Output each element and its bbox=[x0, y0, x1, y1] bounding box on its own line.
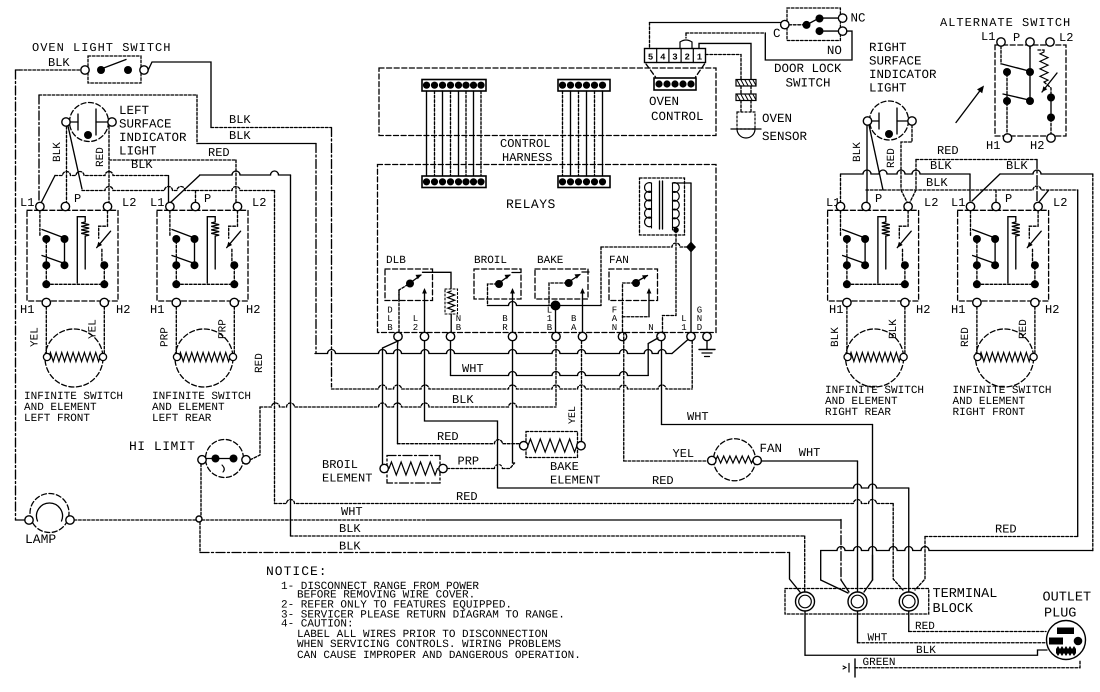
terminal block funnel diagonals bbox=[820, 551, 822, 581]
terminal block terminal 1 bbox=[796, 592, 815, 611]
svg-text:LEFT REAR: LEFT REAR bbox=[152, 413, 212, 425]
svg-text:YEL: YEL bbox=[568, 406, 579, 424]
left front element bbox=[45, 329, 103, 387]
svg-text:RIGHT: RIGHT bbox=[869, 41, 907, 55]
left front element leads bbox=[45, 307, 47, 353]
relay DLB coil R1 bbox=[445, 289, 458, 314]
svg-text:SENSOR: SENSOR bbox=[762, 130, 808, 144]
wire bus D (hi limit) bbox=[260, 403, 556, 407]
alternate switch box bbox=[995, 45, 1066, 136]
svg-text:H2: H2 bbox=[116, 303, 130, 317]
wire P right-front riser bbox=[995, 190, 997, 202]
broil element R2 box bbox=[387, 456, 440, 484]
right front L1 terminal bbox=[966, 202, 974, 210]
svg-text:H2: H2 bbox=[916, 303, 930, 317]
oven control trapezoid bbox=[646, 64, 656, 77]
wire L2 right-front riser bbox=[1039, 191, 1048, 202]
node lamp junction bbox=[196, 516, 202, 522]
harness connector J2 lower bbox=[558, 176, 610, 188]
svg-text:SURFACE: SURFACE bbox=[869, 55, 922, 69]
svg-text:BLK: BLK bbox=[852, 142, 864, 162]
left front L1 terminal bbox=[36, 202, 44, 210]
fan motor B1 bbox=[714, 439, 756, 481]
left front P terminal bbox=[61, 202, 69, 210]
right rear L2 terminal bbox=[904, 202, 912, 210]
right front H1 terminal bbox=[973, 298, 981, 306]
svg-text:RED: RED bbox=[437, 430, 459, 444]
svg-text:CONTROL: CONTROL bbox=[500, 137, 550, 151]
svg-text:BROIL: BROIL bbox=[474, 255, 507, 267]
svg-text:RIGHT FRONT: RIGHT FRONT bbox=[953, 407, 1026, 419]
wire RED riser to L2 left-rear bbox=[235, 160, 237, 202]
svg-text:LEFT: LEFT bbox=[119, 104, 150, 118]
svg-text:HI LIMIT: HI LIMIT bbox=[129, 439, 195, 454]
wire riser to bus A bbox=[315, 144, 317, 354]
alternate switch thermostat bbox=[1042, 73, 1057, 92]
svg-text:P: P bbox=[875, 192, 882, 206]
hi limit switch S2 bbox=[206, 440, 244, 478]
svg-text:RED: RED bbox=[456, 490, 478, 504]
harness connector J1 upper bbox=[422, 80, 486, 92]
svg-text:RED: RED bbox=[960, 327, 972, 347]
right front element bbox=[976, 329, 1034, 387]
svg-text:ELEMENT: ELEMENT bbox=[322, 472, 372, 486]
oven sensor bulb RT1 bbox=[737, 112, 755, 129]
right front L2 terminal bbox=[1034, 202, 1042, 210]
bake element R3 box bbox=[526, 432, 578, 458]
svg-text:RED: RED bbox=[95, 147, 107, 167]
wire lamp to junction bbox=[74, 519, 196, 521]
svg-text:SURFACE: SURFACE bbox=[119, 118, 172, 132]
wire L1B broil common bus bbox=[488, 302, 602, 306]
left rear element bbox=[175, 329, 233, 387]
svg-text:WHT: WHT bbox=[462, 362, 484, 376]
left rear L2 terminal bbox=[233, 202, 241, 210]
right rear element leads bbox=[846, 307, 848, 353]
svg-text:PRP: PRP bbox=[458, 455, 480, 469]
right front P terminal bbox=[992, 202, 1000, 210]
svg-text:L1: L1 bbox=[981, 30, 995, 44]
ground symbol GND bbox=[706, 341, 708, 349]
relay DLB armature arrow bbox=[424, 290, 426, 333]
relay FAN K4 bbox=[609, 269, 658, 301]
svg-text:B: B bbox=[387, 323, 393, 333]
svg-text:L2: L2 bbox=[1059, 31, 1073, 45]
left rear H2 terminal bbox=[230, 298, 238, 306]
wire L1 left-front riser bbox=[38, 95, 40, 202]
svg-text:L1: L1 bbox=[951, 196, 965, 210]
svg-text:LIGHT: LIGHT bbox=[869, 82, 907, 96]
svg-text:L2: L2 bbox=[252, 196, 266, 210]
svg-text:P: P bbox=[1005, 192, 1012, 206]
door lock switch S3 box bbox=[787, 8, 840, 41]
terminal block terminal 2 bbox=[848, 592, 867, 611]
node L1 junction diamond bbox=[686, 242, 696, 253]
wire riser to BLK bus 536 bbox=[290, 175, 292, 536]
svg-text:BROIL: BROIL bbox=[322, 458, 358, 472]
outlet plug P2 bbox=[1047, 621, 1086, 660]
svg-text:BLK: BLK bbox=[131, 158, 153, 172]
wire L1 riser inside relays bbox=[600, 247, 602, 306]
wire junction drop to BLK bus bbox=[199, 522, 201, 553]
svg-text:CAN CAUSE IMPROPER AND DANGERO: CAN CAUSE IMPROPER AND DANGEROUS OPERATI… bbox=[297, 650, 581, 662]
svg-text:A: A bbox=[571, 323, 577, 333]
svg-text:PLUG: PLUG bbox=[1044, 607, 1076, 622]
left rear element leads bbox=[175, 307, 177, 353]
svg-text:BLK: BLK bbox=[48, 56, 70, 70]
right rear H2 terminal bbox=[901, 298, 909, 306]
svg-text:DLB: DLB bbox=[386, 255, 406, 267]
svg-text:NC: NC bbox=[851, 12, 866, 26]
left rear P terminal bbox=[191, 202, 199, 210]
oven sensor connector upper bbox=[736, 80, 756, 87]
terminal block terminal 3 bbox=[899, 592, 918, 611]
svg-text:YEL: YEL bbox=[673, 447, 695, 461]
wire oven light switch right bbox=[148, 62, 211, 128]
svg-text:NOTICE:: NOTICE: bbox=[266, 564, 328, 579]
wire oven light switch left to border bbox=[20, 69, 81, 71]
right rear thermostat contact bbox=[899, 211, 908, 239]
wire transformer secondary top to L1 bbox=[673, 182, 692, 184]
svg-text:H2: H2 bbox=[1030, 139, 1044, 153]
oven control connector block bbox=[654, 78, 696, 90]
wire DLB to broil element bbox=[383, 341, 399, 348]
left rear thermostat contact bbox=[229, 211, 238, 239]
bake element R3 bbox=[520, 442, 528, 450]
svg-text:BLK: BLK bbox=[229, 129, 251, 143]
svg-text:1: 1 bbox=[681, 323, 686, 333]
transformer core bbox=[659, 181, 661, 229]
wire riser to RED bus 503 bbox=[274, 191, 276, 504]
right rear heater resistor bbox=[878, 217, 886, 283]
svg-text:RED: RED bbox=[995, 523, 1017, 537]
lamp DS3 bbox=[30, 494, 69, 533]
right front element leads bbox=[976, 307, 978, 353]
harness connector J2 upper bbox=[558, 80, 610, 92]
svg-text:P: P bbox=[1013, 31, 1020, 45]
wire L1 bus left (BLK) bbox=[41, 176, 55, 204]
relay output terminals bbox=[394, 332, 402, 340]
infinite switch left front box bbox=[27, 210, 118, 301]
svg-text:5: 5 bbox=[648, 53, 653, 63]
left rear H1 terminal bbox=[172, 298, 180, 306]
control harness box bbox=[379, 68, 716, 136]
harness wires J1 bbox=[426, 91, 428, 176]
relay DLB K1 bbox=[385, 269, 433, 301]
wire right indicator diagonal lead bbox=[869, 125, 883, 190]
alternate switch resistor bbox=[1029, 46, 1031, 50]
oven control tab bbox=[680, 40, 692, 49]
alternate switch contacts bbox=[1000, 46, 1002, 64]
svg-text:H1: H1 bbox=[986, 139, 1000, 153]
wire FAN common drop bbox=[623, 283, 635, 333]
svg-text:WHT: WHT bbox=[687, 410, 709, 424]
infinite switch right rear box bbox=[828, 210, 919, 301]
wire pin1 to oven sensor bbox=[706, 55, 742, 80]
relay BROIL armature arrow bbox=[512, 290, 514, 333]
wire BAKE common bbox=[549, 283, 567, 306]
svg-text:WHT: WHT bbox=[341, 505, 363, 519]
svg-text:B: B bbox=[547, 323, 553, 333]
svg-text:P: P bbox=[74, 192, 81, 206]
left surface indicator light DS1 bbox=[70, 103, 109, 142]
right rear P terminal bbox=[862, 202, 870, 210]
wire transformer secondary bottom to N bbox=[673, 227, 679, 233]
left front H2 terminal bbox=[100, 298, 108, 306]
left front thermostat contact bbox=[99, 211, 108, 239]
svg-text:N: N bbox=[612, 323, 617, 333]
svg-text:L1: L1 bbox=[20, 196, 34, 210]
svg-text:BLK: BLK bbox=[339, 540, 361, 554]
svg-text:RELAYS: RELAYS bbox=[506, 197, 556, 212]
svg-text:L2: L2 bbox=[122, 196, 136, 210]
svg-text:ELEMENT: ELEMENT bbox=[550, 474, 600, 488]
svg-text:YEL: YEL bbox=[29, 327, 41, 347]
right front heater resistor bbox=[1008, 217, 1016, 283]
wire right border drop to terminal 2 bus bbox=[1092, 174, 1094, 551]
svg-text:BAKE: BAKE bbox=[550, 460, 579, 474]
wire hi limit left drop bbox=[200, 464, 202, 518]
broil element R2 bbox=[380, 464, 388, 472]
left rear L1 terminal bbox=[166, 202, 174, 210]
svg-text:BLK: BLK bbox=[52, 142, 64, 162]
svg-text:RED: RED bbox=[254, 353, 266, 373]
door lock C terminal bbox=[781, 20, 789, 28]
left rear contacts bbox=[169, 211, 171, 236]
svg-text:H1: H1 bbox=[951, 303, 965, 317]
wire oven light riser to L1 relay bus bbox=[331, 128, 333, 388]
wire pin5 to door lock C bbox=[649, 23, 651, 49]
svg-text:INDICATOR: INDICATOR bbox=[119, 131, 187, 145]
wire tab to door lock NO bbox=[685, 33, 687, 38]
wire L1 right-rear drop bbox=[840, 174, 842, 202]
svg-text:BLK: BLK bbox=[452, 393, 474, 407]
svg-text:WHT: WHT bbox=[799, 446, 821, 460]
oven sensor leads bbox=[740, 86, 742, 94]
svg-text:HARNESS: HARNESS bbox=[502, 151, 552, 165]
svg-text:OVEN: OVEN bbox=[649, 95, 679, 109]
right front H2 terminal bbox=[1031, 298, 1039, 306]
left rear heater resistor bbox=[207, 217, 215, 283]
wire BLK bus left lower bbox=[82, 187, 275, 191]
left front contacts bbox=[39, 211, 41, 236]
svg-text:R: R bbox=[502, 323, 508, 333]
svg-text:P: P bbox=[204, 192, 211, 206]
svg-text:FAN: FAN bbox=[609, 255, 629, 267]
right rear H1 terminal bbox=[843, 298, 851, 306]
svg-text:LIGHT: LIGHT bbox=[119, 145, 157, 159]
svg-text:H1: H1 bbox=[150, 303, 164, 317]
terminal block TB1 box bbox=[785, 589, 929, 615]
svg-text:RED: RED bbox=[937, 144, 959, 158]
svg-text:INDICATOR: INDICATOR bbox=[869, 68, 937, 82]
svg-text:RIGHT REAR: RIGHT REAR bbox=[825, 407, 891, 419]
wire BLK bus to terminal 2 bbox=[821, 547, 1093, 551]
svg-text:LEFT FRONT: LEFT FRONT bbox=[24, 413, 90, 425]
svg-text:BLOCK: BLOCK bbox=[933, 602, 974, 617]
relay BAKE K3 bbox=[535, 269, 588, 299]
wire indicator diagonal lead bbox=[68, 126, 82, 189]
alternate switch arrow bbox=[956, 88, 982, 123]
svg-text:BLK: BLK bbox=[229, 113, 251, 127]
svg-text:L2: L2 bbox=[924, 196, 938, 210]
wire L2 relay to RED bus bbox=[425, 341, 498, 488]
svg-text:OVEN: OVEN bbox=[762, 112, 792, 126]
door lock NO terminal bbox=[838, 27, 846, 35]
svg-text:3: 3 bbox=[672, 53, 677, 63]
svg-text:H1: H1 bbox=[829, 303, 843, 317]
wire pin2 to oven sensor bbox=[699, 43, 751, 79]
wire hi limit right riser to bus D bbox=[250, 407, 260, 460]
svg-text:RED: RED bbox=[208, 146, 230, 160]
transformer T1 box bbox=[640, 178, 685, 235]
door lock NC terminal bbox=[838, 14, 846, 22]
oven sensor connector lower bbox=[736, 94, 756, 101]
infinite switch right front box bbox=[958, 210, 1049, 301]
infinite switch left rear box bbox=[157, 210, 248, 301]
wire BROIL common bbox=[488, 284, 498, 306]
relay BROIL K2 bbox=[474, 269, 521, 299]
wire bus D riser to L1B bbox=[555, 341, 557, 407]
wire bus A L2 feed bbox=[315, 350, 672, 354]
right front contacts bbox=[970, 211, 972, 236]
svg-text:4: 4 bbox=[660, 53, 666, 63]
relays box bbox=[378, 165, 717, 333]
svg-text:LAMP: LAMP bbox=[25, 532, 56, 547]
wire P left-rear riser bbox=[195, 191, 197, 203]
svg-text:PRP: PRP bbox=[159, 327, 171, 347]
relay FAN armature arrow bbox=[648, 290, 650, 317]
svg-text:L2: L2 bbox=[1053, 196, 1067, 210]
right rear contacts bbox=[840, 211, 842, 236]
oven light switch SW1 bbox=[88, 56, 141, 83]
wire DLB common drop bbox=[398, 290, 400, 333]
svg-text:BLK: BLK bbox=[339, 522, 361, 536]
wire WHT drop to terminal 2 bbox=[840, 520, 842, 580]
svg-text:DOOR LOCK: DOOR LOCK bbox=[774, 62, 842, 76]
left border wire bbox=[15, 70, 17, 520]
left front H1 terminal bbox=[42, 298, 50, 306]
right front thermostat contact bbox=[1029, 211, 1038, 239]
svg-text:BAKE: BAKE bbox=[537, 255, 564, 267]
svg-text:RED: RED bbox=[652, 474, 674, 488]
harness wires J2 bbox=[562, 91, 564, 176]
svg-text:ALTERNATE SWITCH: ALTERNATE SWITCH bbox=[940, 16, 1071, 30]
svg-text:CONTROL: CONTROL bbox=[651, 110, 704, 124]
oven control connector P1 numbered bbox=[645, 49, 706, 63]
svg-text:2: 2 bbox=[413, 323, 418, 333]
door lock contacts bbox=[789, 24, 805, 26]
svg-text:BLK: BLK bbox=[1006, 159, 1028, 173]
svg-text:NO: NO bbox=[827, 44, 842, 58]
svg-text:2: 2 bbox=[684, 53, 689, 63]
svg-text:1: 1 bbox=[697, 53, 703, 63]
left front heater resistor bbox=[77, 217, 85, 283]
svg-text:SWITCH: SWITCH bbox=[786, 76, 831, 90]
svg-text:H1: H1 bbox=[20, 303, 34, 317]
wire BR to PRP bbox=[512, 341, 514, 463]
wire door lock NO loop bbox=[765, 31, 852, 60]
right rear element bbox=[846, 329, 904, 387]
relay BAKE armature arrow bbox=[582, 290, 584, 333]
svg-text:TERMINAL: TERMINAL bbox=[933, 587, 998, 602]
svg-text:RED: RED bbox=[886, 148, 898, 168]
right surface indicator light DS2 bbox=[870, 101, 909, 140]
ground chassis symbol bbox=[854, 659, 856, 677]
svg-text:BLK: BLK bbox=[830, 327, 842, 347]
svg-text:C: C bbox=[773, 27, 781, 41]
left front L2 terminal bbox=[103, 202, 111, 210]
svg-text:B: B bbox=[456, 323, 462, 333]
svg-text:H2: H2 bbox=[246, 303, 260, 317]
svg-text:H2: H2 bbox=[1045, 303, 1059, 317]
svg-text:BLK: BLK bbox=[930, 159, 952, 173]
svg-text:OVEN LIGHT SWITCH: OVEN LIGHT SWITCH bbox=[32, 41, 171, 55]
svg-text:BLK: BLK bbox=[926, 176, 948, 190]
transformer secondary coil bbox=[672, 183, 674, 230]
harness connector J1 lower bbox=[422, 176, 486, 188]
svg-text:D: D bbox=[697, 323, 702, 333]
svg-text:N: N bbox=[648, 323, 653, 333]
svg-text:OUTLET: OUTLET bbox=[1043, 591, 1092, 606]
svg-text:FAN: FAN bbox=[760, 442, 783, 456]
right rear L1 terminal bbox=[836, 202, 844, 210]
svg-text:L1: L1 bbox=[150, 196, 164, 210]
wire top jog from L1 riser bbox=[39, 94, 197, 96]
transformer primary coil bbox=[651, 183, 653, 228]
